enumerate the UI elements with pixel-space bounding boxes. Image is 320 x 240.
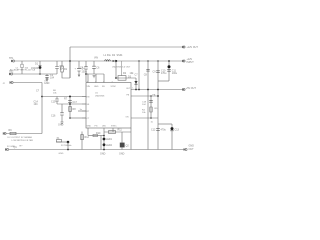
bottom-right connector [185,148,187,150]
wire y118 to IC [70,117,86,119]
connector J1-1 [12,60,14,62]
wire x116 down [115,61,117,78]
rail x139 [138,61,140,90]
junction dot x70 y61 [69,60,71,62]
long vertical x42 [41,83,43,134]
wire x70 lower [69,61,71,78]
svg-text:104: 104 [34,103,39,106]
bridge y81 [158,80,169,82]
sub bus y74 above IC [86,73,104,75]
bridge y124 [158,123,172,125]
svg-text:SYNC: SYNC [111,86,117,88]
IC top pin stubs [88,74,104,83]
small box on y138 wire [93,134,98,136]
rail x148 [147,61,149,150]
wire y82.5 to x42 [13,82,42,84]
left connector J2 y82.5 [11,81,13,83]
transistor x122 [121,132,123,143]
svg-text:GND: GND [94,86,99,88]
capacitor C3 x57 [56,61,58,74]
svg-text:L1 33u: L1 33u [104,54,112,57]
rail x169 [168,61,170,81]
svg-text:GND: GND [87,126,92,128]
riser x121.5 from bus to box [121,61,123,76]
svg-text:GND: GND [44,82,50,85]
feedback box on y78 [116,77,136,79]
ground under C6 [93,76,96,78]
tantalum blob x172 [171,127,174,130]
svg-text:GND: GND [100,153,106,156]
diode D1 x40 [39,61,41,74]
svg-text:R10: R10 [96,132,101,135]
capacitor C2 x47 to gnd [46,74,48,79]
resistor on wire [10,132,16,134]
svg-text:VIN: VIN [87,86,91,88]
resistor R1 x62 loop [62,61,70,78]
wire y96.5 to IC [42,96,86,98]
IC right pin wire y96 [131,95,158,97]
svg-text:+12V OUT: +12V OUT [187,46,199,49]
svg-text:470u: 470u [161,72,167,75]
polarized cap C4 x79 [78,61,80,77]
svg-text:DC OUTPUT 5V 2A MAX: DC OUTPUT 5V 2A MAX [8,136,33,139]
x101 to bus [100,136,102,150]
wire y135.5 [88,135,104,137]
svg-text:LED: LED [102,126,106,128]
svg-text:OUT: OUT [189,148,195,151]
pot area x57-68 y142 [56,141,68,143]
svg-text:C17: C17 [73,101,78,104]
svg-text:SYNC: SYNC [111,126,117,128]
svg-text:SS34: SS34 [117,54,124,57]
rail x172 [171,124,173,150]
junction dot x169 y61 [168,60,170,62]
divider chain x151 [150,96,152,118]
svg-text:INPUT: INPUT [187,61,195,64]
wire corner x70 down [69,47,71,78]
svg-text:LM2596S: LM2596S [95,96,105,98]
svg-text:TP1: TP1 [9,57,14,60]
rail x158 [157,61,159,150]
diode D2 on bus [113,60,115,62]
svg-text:32.768kHz: 32.768kHz [61,145,71,147]
lower-left input wire y133.5 [6,133,42,135]
LED chain x104 [103,128,105,150]
wire y104 to IC [57,103,86,105]
svg-text:LED2: LED2 [106,144,113,147]
junction dot x116 y78 [115,77,117,79]
svg-text:C12: C12 [151,129,156,132]
cap plates x158 y71 [156,71,160,73]
svg-text:LM2596S-5.0 OUT: LM2596S-5.0 OUT [112,67,131,69]
inductor L1 on bus [105,60,111,61]
junction dot x70 y96.5 [69,96,71,98]
wire y111 to IC [78,110,86,112]
junction dot x70 y104 [69,103,71,105]
bottom bus y150 [9,149,185,151]
junction dots on bus [138,60,139,61]
junction dot x42 y96.5 [41,96,43,98]
svg-text:GND: GND [119,153,125,156]
below IC: stub x88 [87,128,89,136]
svg-text:100u: 100u [172,72,178,75]
svg-text:+5V OUT: +5V OUT [186,87,197,90]
cap C6 x94 [93,61,95,74]
vert x70 down [69,97,71,119]
text smudges [3,46,199,156]
IC right pin wire y118 [131,117,158,119]
svg-text:C16: C16 [51,115,56,118]
diode D3 x136 [135,78,137,90]
svg-text:LOW RIPPLE FILTER: LOW RIPPLE FILTER [12,140,34,142]
junction dot x116 y61 [115,60,117,62]
svg-text:GND: GND [58,124,64,127]
capacitor C1 between input rails [21,64,23,67]
svg-text:C15: C15 [51,101,56,104]
x131 down to bus [130,128,132,150]
svg-text:470u: 470u [161,129,167,132]
junction dot x86 y74 [85,73,87,75]
cap x57 y99-102 [56,97,58,105]
svg-text:VIN: VIN [94,57,98,60]
cap plates x158 y129 [156,129,160,131]
output wire y89.5 [131,89,183,91]
right connectors [183,46,185,48]
IC left pin stubs [82,97,86,119]
bottom-left connector [6,148,8,150]
wire input return y74 [13,73,57,75]
ground sym x47 [46,79,49,81]
svg-text:R12: R12 [85,136,90,139]
svg-text:PG: PG [95,126,98,128]
stub x113 + wire y132 [104,128,131,132]
IC U1 box [86,83,131,129]
svg-text:104: 104 [50,77,55,80]
svg-text:R11: R11 [118,128,123,131]
svg-text:C13: C13 [175,129,180,132]
middle resistor x82 to bus [81,132,83,150]
cap plates x148 y70 [146,69,149,71]
wire top bus +12V y47 [70,46,183,48]
svg-text:1N4007: 1N4007 [31,67,40,70]
svg-text:GND: GND [59,153,64,155]
svg-text:LED1: LED1 [106,138,113,141]
tantalum blob x169 [168,65,171,68]
wire main input bus y61 [15,60,183,62]
svg-text:100u: 100u [82,71,88,74]
connector J1-2 [10,73,12,75]
cap C5 x86 [85,61,87,82]
cap x62 [61,104,63,122]
